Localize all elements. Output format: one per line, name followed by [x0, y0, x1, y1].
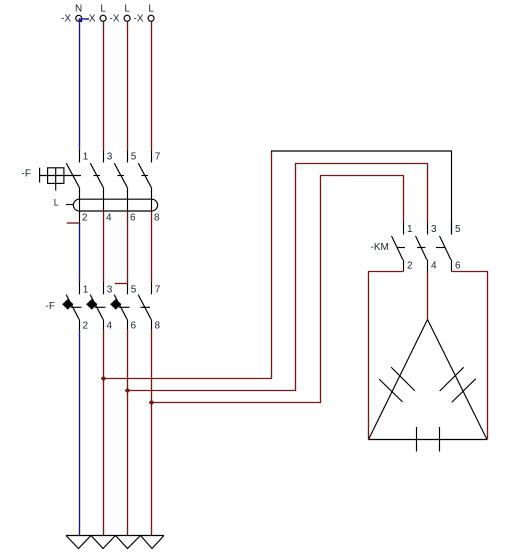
wire N vertical (-F1 to -F2) [79, 223, 81, 282]
svg-text:3: 3 [107, 152, 113, 163]
wire motor phase U (from -KM pin 2) [369, 272, 404, 440]
svg-text:L: L [100, 4, 106, 15]
wire L2 vertical (terminal to -F1) [127, 22, 129, 151]
RCD -F1 toroid oval [73, 199, 157, 211]
RCD -F1 contact blade pole 4 [138, 163, 151, 187]
wire L3 vertical (-F2 to ground) [151, 330, 153, 536]
RCD -F1 contact blade pole 3 [114, 163, 127, 187]
wire L2 vertical (-F2 to ground) [127, 330, 129, 536]
svg-text:L: L [54, 198, 59, 208]
breaker -F2 lower pin 4 [103, 319, 105, 330]
breaker -F2 linkage dash pole 4 [141, 306, 151, 308]
contactor -KM lower pin 6 [451, 260, 453, 272]
breaker -F2 linkage dash pole 2 [95, 306, 106, 308]
svg-text:6: 6 [130, 212, 136, 223]
breaker -F2 lower pin 8 [151, 319, 153, 330]
svg-text:-X: -X [110, 13, 120, 24]
svg-text:8: 8 [154, 212, 160, 223]
RCD -F1 test device square [48, 168, 64, 184]
RCD -F1 red stub pole 1 [67, 222, 80, 224]
RCD -F1 pin 3 [103, 150, 105, 163]
svg-text:8: 8 [155, 321, 161, 332]
breaker -F2 pin 7 [151, 282, 153, 294]
wire run L1 to -KM pin 5 (red part) [104, 152, 272, 379]
node marker on N terminal [79, 19, 81, 21]
wire L1 vertical (-F2 to ground) [103, 330, 105, 536]
contactor -KM contact blade pole 2 [416, 236, 427, 260]
motor delta winding bottom side [369, 439, 488, 441]
wire L3 vertical (-F1 to -F2) [151, 211, 153, 282]
RCD -F1 lower pin pole 4 [151, 187, 153, 210]
svg-text:4: 4 [107, 321, 113, 332]
terminal -X4 (L) [148, 15, 154, 21]
wire motor phase V (from -KM pin 4) [427, 272, 429, 320]
junction L3 [149, 400, 155, 406]
breaker -F2 contact blade pole 1 [66, 295, 79, 320]
contactor -KM contact blade pole 3 [440, 236, 451, 260]
breaker -F2 lower pin 6 [127, 319, 129, 330]
RCD -F1 linkage dash pole 4 [142, 175, 149, 177]
wire L1 vertical (-F1 to -F2) [103, 211, 105, 282]
svg-text:2: 2 [407, 261, 413, 272]
breaker -F2 lower pin 2 [79, 319, 81, 330]
breaker -F2 element blob pole 2 [87, 300, 97, 309]
svg-text:6: 6 [131, 321, 137, 332]
RCD -F1 test link line [40, 175, 81, 177]
motor winding tick left 2 [379, 379, 403, 402]
ground symbol teeth [66, 536, 164, 549]
terminal -X2 (L) [100, 15, 106, 21]
svg-text:4: 4 [106, 212, 112, 223]
svg-text:2: 2 [82, 212, 88, 223]
contactor -KM pin 3 [427, 221, 429, 235]
RCD -F1 lower pin pole 2 [103, 187, 105, 210]
svg-text:6: 6 [455, 261, 461, 272]
wire L2 jog stub [115, 283, 128, 285]
svg-text:-F: -F [22, 169, 31, 180]
motor winding tick right 1 [440, 367, 464, 391]
contactor -KM pin 1 [403, 221, 405, 235]
svg-text:2: 2 [83, 321, 89, 332]
svg-text:1: 1 [83, 152, 89, 163]
wire run L1 to -KM pin 5 (black part) [272, 151, 452, 235]
RCD -F1 linkage dash pole 3 [118, 175, 125, 177]
terminal -X3 (L) [124, 15, 130, 21]
svg-text:1: 1 [407, 224, 413, 235]
svg-text:L: L [124, 4, 130, 15]
contactor -KM lower pin 4 [427, 260, 429, 272]
RCD -F1 lower pin pole 1 [79, 187, 81, 223]
contactor -KM linkage dash pole 2 [417, 247, 425, 249]
RCD -F1 contact blade pole 2 [90, 163, 103, 187]
svg-text:N: N [75, 4, 82, 15]
RCD -F1 test device terminal bar [39, 168, 41, 183]
breaker -F2 contact blade pole 2 [90, 295, 103, 320]
ground bus bar [66, 535, 164, 537]
wire L2 vertical (-F1 to -F2) [127, 211, 129, 284]
svg-text:3: 3 [431, 224, 437, 235]
RCD -F1 linkage dash pole 2 [94, 175, 101, 177]
terminal -X1 (N) [76, 15, 82, 21]
motor winding tick bottom 1 [416, 427, 418, 452]
RCD -F1 test device bottom stub [55, 183, 57, 190]
breaker -F2 pin 3 [103, 282, 105, 294]
wire N stub right [82, 18, 89, 20]
motor delta winding left side [369, 320, 428, 440]
motor delta winding right side [428, 320, 488, 440]
svg-text:4: 4 [431, 261, 437, 272]
breaker -F2 element blob pole 1 [63, 300, 73, 309]
svg-text:7: 7 [155, 152, 161, 163]
junction L1 [101, 376, 107, 382]
svg-text:-X: -X [86, 13, 96, 24]
contactor -KM lower pin 2 [403, 260, 405, 272]
contactor -KM linkage dash pole 1 [397, 247, 405, 249]
RCD -F1 L stub [66, 204, 73, 206]
svg-text:5: 5 [131, 284, 137, 295]
svg-text:7: 7 [155, 284, 161, 295]
svg-text:-X: -X [61, 13, 71, 24]
wire L1 vertical (terminal to -F1) [103, 22, 105, 151]
RCD -F1 contact blade pole 1 [66, 163, 79, 187]
svg-text:L: L [148, 4, 154, 15]
svg-text:-F: -F [46, 301, 55, 312]
RCD -F1 test device square center line [55, 168, 57, 184]
wire run L3 to -KM pin 1 [152, 176, 404, 403]
RCD -F1 pin 1 [79, 150, 81, 163]
wire N vertical (terminal to -F1) [79, 22, 81, 151]
svg-text:1: 1 [83, 284, 89, 295]
motor winding tick left 1 [391, 367, 415, 391]
contactor -KM pin 5 [451, 221, 453, 235]
RCD -F1 lower pin pole 3 [127, 187, 129, 210]
svg-text:5: 5 [131, 152, 137, 163]
motor winding tick right 2 [452, 379, 476, 403]
breaker -F2 element blob pole 3 [111, 300, 121, 309]
svg-text:-X: -X [134, 13, 144, 24]
breaker -F2 pin 5 [127, 284, 129, 295]
contactor -KM contact blade pole 1 [392, 236, 403, 260]
motor winding tick bottom 2 [439, 427, 441, 452]
wire run L2 to -KM pin 3 [128, 164, 428, 391]
breaker -F2 linkage dash pole 1 [71, 306, 82, 308]
junction L2 [125, 388, 131, 394]
wire N vertical (-F2 to ground) [79, 330, 81, 536]
svg-text:-KM: -KM [371, 242, 389, 253]
svg-text:3: 3 [107, 284, 113, 295]
wire motor phase W (from -KM pin 6) [452, 272, 488, 440]
breaker -F2 contact blade pole 4 [138, 295, 151, 320]
breaker -F2 linkage dash pole 3 [119, 306, 130, 308]
contactor -KM linkage dash pole 3 [436, 247, 445, 249]
RCD -F1 pin 7 [151, 150, 153, 163]
breaker -F2 pin 1 [79, 282, 81, 294]
RCD -F1 pin 5 [127, 150, 129, 163]
breaker -F2 contact blade pole 3 [114, 295, 127, 320]
svg-text:5: 5 [455, 224, 461, 235]
wire L3 vertical (terminal to -F1) [151, 22, 153, 151]
